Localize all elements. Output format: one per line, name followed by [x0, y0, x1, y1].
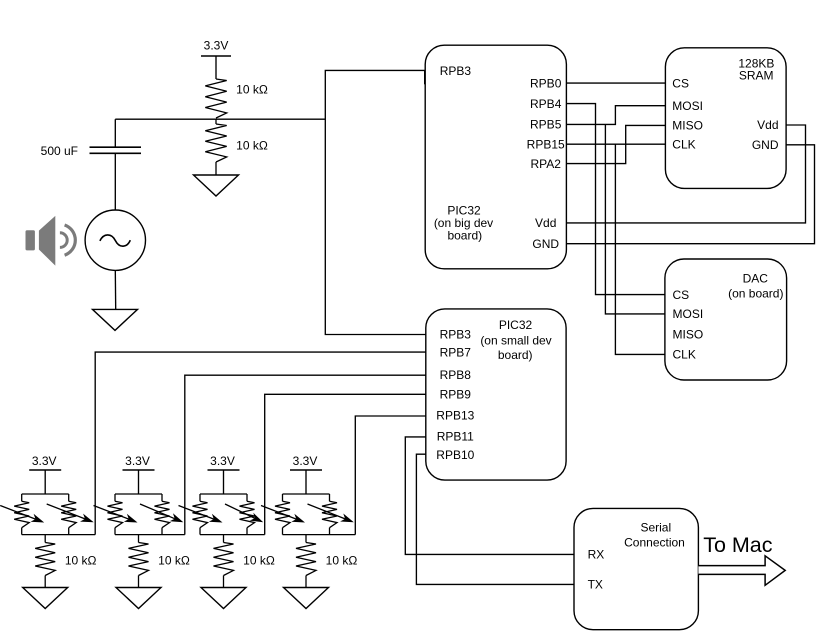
svg-text:RX: RX [588, 548, 605, 562]
svg-text:500 uF: 500 uF [41, 144, 78, 158]
wire [305, 470, 307, 494]
svg-text:3.3V: 3.3V [293, 454, 318, 468]
wire Vdd net [566, 125, 805, 223]
svg-text:MOSI: MOSI [672, 99, 703, 113]
svg-text:GND: GND [532, 237, 559, 251]
svg-text:RPB3: RPB3 [440, 64, 472, 78]
svg-text:RPB10: RPB10 [436, 448, 474, 462]
svg-text:(on board): (on board) [728, 287, 783, 301]
power 3.3V (pot 2) [123, 454, 155, 470]
wire junction row [115, 118, 325, 120]
arrow To Mac [698, 533, 785, 586]
svg-text:Vdd: Vdd [535, 216, 556, 230]
svg-text:To Mac: To Mac [703, 533, 773, 557]
svg-text:RPB7: RPB7 [440, 345, 472, 359]
svg-text:Serial: Serial [640, 520, 671, 534]
svg-text:10 kΩ: 10 kΩ [158, 553, 190, 567]
power 3.3V (pot 1) [29, 454, 61, 470]
power 3.3V (divider supply) [201, 39, 231, 56]
wire [114, 153, 116, 210]
ground (pot 2) [116, 588, 161, 609]
ground (source) [93, 309, 138, 330]
svg-text:MISO: MISO [673, 327, 704, 341]
svg-text:10 kΩ: 10 kΩ [236, 83, 268, 97]
wire RPB5 MOSI net [566, 106, 665, 314]
svg-text:GND: GND [752, 138, 779, 152]
wire [44, 535, 46, 543]
svg-text:RPB0: RPB0 [530, 76, 562, 90]
capacitor 500 uF [41, 144, 141, 158]
IC PIC32 (on small dev board) [426, 309, 566, 480]
svg-text:10 kΩ: 10 kΩ [65, 553, 97, 567]
wire [305, 535, 307, 543]
wire RPA2 MISO net [566, 125, 665, 163]
pot 4 wiper arrow right [308, 504, 354, 522]
wire pot wiper to RPB7 [95, 352, 426, 534]
svg-text:SRAM: SRAM [739, 68, 774, 82]
ground (pot 3) [201, 588, 246, 609]
resistor 10 k&#937; (pot 3 load) [214, 543, 275, 588]
pot 4 wiper arrow left [261, 506, 305, 523]
wire [223, 535, 225, 543]
wire RPB15 CLK net [566, 144, 665, 354]
svg-text:CS: CS [673, 288, 690, 302]
svg-text:(on small dev: (on small dev [480, 334, 551, 348]
ground (pot 1) [23, 588, 68, 609]
svg-text:RPB9: RPB9 [440, 388, 472, 402]
resistor 10 k&#937; (upper divider) [205, 79, 268, 118]
pot 2 wiper arrow right [140, 504, 183, 522]
potentiometer 1 body [14, 494, 95, 535]
svg-text:MISO: MISO [672, 119, 703, 133]
ground (pot 4) [284, 588, 329, 609]
svg-text:RPB11: RPB11 [437, 430, 474, 444]
wire [138, 470, 140, 494]
wire pot wiper to RPB9 [265, 394, 426, 534]
power 3.3V (pot 4) [290, 454, 322, 470]
power 3.3V (pot 3) [208, 454, 240, 470]
ground (divider) [194, 175, 239, 196]
wire pot wiper to RPB13 [355, 416, 426, 535]
block Serial Connection [574, 508, 698, 629]
svg-text:10 kΩ: 10 kΩ [236, 139, 268, 153]
wire RPB10 to TX [416, 454, 574, 584]
pin connection tick RPB3 [424, 70, 426, 84]
svg-text:board): board) [498, 348, 533, 362]
wire GND net [566, 145, 814, 244]
pot 2 wiper arrow left [94, 506, 138, 523]
resistor 10 k&#937; (lower divider) [205, 119, 268, 175]
wire RPB4 to DAC CS [566, 104, 665, 295]
pot 3 wiper arrow right [225, 504, 263, 522]
IC PIC32 (on big dev board) [425, 45, 566, 269]
potentiometer 4 body [275, 494, 355, 535]
wire [44, 470, 46, 494]
pot 1 wiper arrow right [47, 504, 94, 522]
svg-text:DAC: DAC [743, 271, 769, 285]
svg-text:CLK: CLK [673, 348, 696, 362]
svg-text:MOSI: MOSI [673, 307, 704, 321]
pot 3 wiper arrow left [179, 506, 223, 523]
svg-text:TX: TX [588, 577, 603, 591]
svg-text:RPB3: RPB3 [440, 328, 472, 342]
resistor 10 k&#937; (pot 1 load) [35, 543, 96, 588]
svg-text:RPB13: RPB13 [436, 409, 474, 423]
svg-text:3.3V: 3.3V [204, 39, 229, 53]
wire [215, 56, 217, 79]
svg-text:Vdd: Vdd [757, 118, 778, 132]
svg-text:3.3V: 3.3V [32, 454, 57, 468]
speaker icon [26, 216, 76, 266]
svg-text:Connection: Connection [624, 536, 685, 550]
svg-text:RPA2: RPA2 [530, 157, 561, 171]
resistor 10 k&#937; (pot 2 load) [129, 543, 190, 588]
svg-text:CS: CS [672, 76, 689, 90]
wire net RPB3 [325, 70, 426, 334]
svg-text:RPB5: RPB5 [530, 118, 562, 132]
potentiometer 3 body [193, 494, 265, 535]
svg-text:3.3V: 3.3V [210, 454, 235, 468]
wire pot wiper to RPB8 [185, 375, 426, 534]
svg-text:RPB4: RPB4 [530, 97, 562, 111]
svg-text:10 kΩ: 10 kΩ [326, 553, 358, 567]
AC source (audio signal) [85, 210, 145, 270]
wire RPB0 to SRAM CS [566, 82, 665, 84]
wire RPB11 to RX [405, 437, 574, 555]
svg-text:PIC32: PIC32 [499, 318, 533, 332]
svg-text:10 kΩ: 10 kΩ [243, 553, 275, 567]
svg-text:RPB8: RPB8 [440, 368, 472, 382]
svg-text:CLK: CLK [672, 138, 695, 152]
wire [223, 470, 225, 494]
wire [138, 535, 140, 543]
wire [114, 270, 116, 309]
IC DAC (on board) [665, 259, 787, 380]
svg-text:RPB15: RPB15 [527, 137, 565, 151]
IC 128KB SRAM [665, 48, 786, 189]
wire [114, 119, 116, 146]
potentiometer 2 body [108, 494, 185, 535]
resistor 10 k&#937; (pot 4 load) [296, 543, 357, 588]
pot 1 wiper arrow left [0, 506, 44, 523]
svg-text:3.3V: 3.3V [125, 454, 150, 468]
svg-text:board): board) [447, 228, 482, 242]
